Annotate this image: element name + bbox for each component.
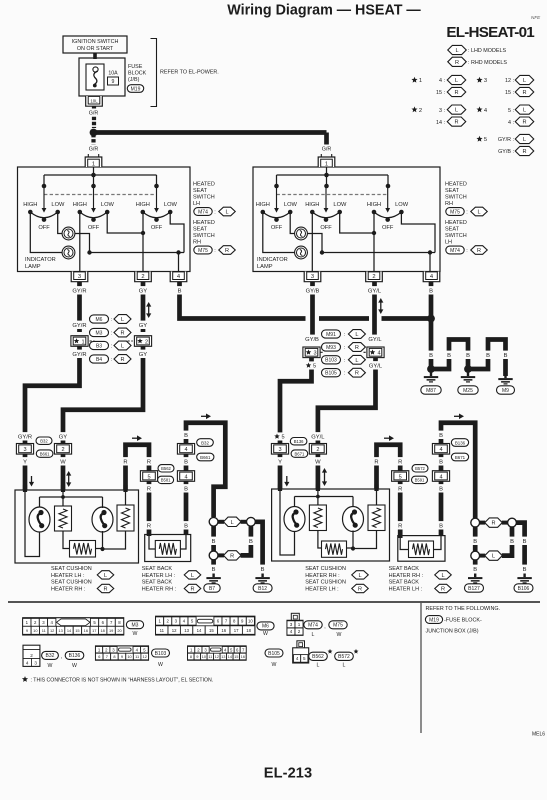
svg-text:SEAT CUSHION: SEAT CUSHION xyxy=(305,580,346,586)
svg-text:ON OR START: ON OR START xyxy=(77,46,114,52)
legend *1 xyxy=(411,77,417,83)
svg-text:REFER TO THE FOLLOWING.: REFER TO THE FOLLOWING. xyxy=(426,606,501,612)
contact node sw3 (right) xyxy=(386,184,391,189)
ground ref M25 xyxy=(458,386,478,394)
svg-text:1: 1 xyxy=(82,339,85,345)
svg-text::: : xyxy=(111,344,112,350)
wire thermostat to node (right) xyxy=(347,547,354,549)
left switch pin 4 xyxy=(170,272,187,282)
indicator lamp 2 (left) xyxy=(62,246,75,259)
seat cushion heater RH box xyxy=(272,489,390,561)
connector refs B32/B661 (cushion pair) xyxy=(36,437,52,444)
svg-text:W: W xyxy=(315,460,321,466)
svg-text:L: L xyxy=(121,344,124,350)
connector B32/B661 pin 3 xyxy=(16,444,33,455)
svg-text:B671: B671 xyxy=(295,451,305,456)
svg-text:1: 1 xyxy=(92,162,95,168)
svg-text:SWITCH: SWITCH xyxy=(445,233,467,239)
svg-text:SEAT CUSHION: SEAT CUSHION xyxy=(51,580,92,586)
B bridge 1 xyxy=(431,340,468,370)
heater element 1 (left cushion) xyxy=(55,506,72,531)
svg-text::: : xyxy=(214,248,216,254)
svg-text:B: B xyxy=(439,460,443,466)
svg-text:R: R xyxy=(454,120,458,126)
svg-text:B105: B105 xyxy=(268,651,280,657)
svg-text:1: 1 xyxy=(298,622,301,627)
fuse number 9 box xyxy=(108,77,119,85)
svg-text:13: 13 xyxy=(58,628,62,633)
svg-text:HEATER LH :: HEATER LH : xyxy=(305,586,339,592)
seat back heater element (left) xyxy=(155,541,180,558)
svg-text:B: B xyxy=(429,353,433,359)
svg-text:10: 10 xyxy=(248,619,253,624)
svg-text:SEAT BACK: SEAT BACK xyxy=(389,580,420,586)
svg-text:W: W xyxy=(158,662,163,668)
double arrow (GY/L) xyxy=(378,298,383,314)
right switch internal feed lines xyxy=(326,167,328,175)
svg-text:M74: M74 xyxy=(450,248,460,254)
wire common to pin 4 xyxy=(178,253,180,272)
junction at M87 xyxy=(427,365,435,373)
svg-text:2: 2 xyxy=(372,274,375,280)
terminal circle C xyxy=(209,551,218,560)
svg-text:BLOCK: BLOCK xyxy=(128,71,147,77)
svg-text:B: B xyxy=(439,524,443,530)
svg-text:OFF: OFF xyxy=(320,225,332,231)
heated seat switch LH box (M74) xyxy=(18,167,191,272)
svg-text:B: B xyxy=(184,433,188,439)
wire circle D to circle F xyxy=(473,527,478,552)
svg-text::: : xyxy=(214,210,216,216)
junction pin 2 node (right) xyxy=(372,231,376,235)
svg-text:LH: LH xyxy=(193,201,200,207)
connector face B32/B136 xyxy=(23,645,40,666)
svg-text:GY: GY xyxy=(59,435,68,441)
wire B to ground B12 xyxy=(255,522,262,573)
svg-text:R: R xyxy=(398,487,402,493)
svg-text:16: 16 xyxy=(84,628,88,633)
svg-text:B: B xyxy=(504,353,508,359)
svg-text:B4: B4 xyxy=(96,357,102,363)
svg-text:M9: M9 xyxy=(502,388,509,394)
svg-text:HIGH: HIGH xyxy=(23,202,37,208)
svg-text:W: W xyxy=(263,631,268,637)
wire GY/R pin3 to *1 xyxy=(77,282,82,332)
cushion lamp A (right) xyxy=(284,507,305,532)
svg-text:R: R xyxy=(355,345,359,351)
wire stub Y into box xyxy=(23,485,27,492)
svg-text:R: R xyxy=(398,524,402,530)
wire HIGH1 to lamp2 (right) xyxy=(263,212,295,253)
wire stub W into box xyxy=(61,485,65,492)
switch unit 1 (right box) xyxy=(256,186,298,231)
arrow flow (right B) xyxy=(454,414,464,420)
svg-text:R: R xyxy=(147,487,151,493)
svg-text:2: 2 xyxy=(30,653,33,658)
fuse block pin 10L xyxy=(86,96,103,106)
connector refs B136/B671 (right column) xyxy=(451,439,468,447)
svg-text:Y: Y xyxy=(23,460,27,466)
svg-text:B136: B136 xyxy=(69,653,81,659)
wire B to ground M87 xyxy=(429,319,434,370)
svg-text:M75: M75 xyxy=(450,209,460,215)
svg-text:B: B xyxy=(473,567,477,573)
svg-text:R: R xyxy=(190,587,194,593)
connector B32/B661 pin 4 xyxy=(177,444,194,455)
svg-text:HEATER LH :: HEATER LH : xyxy=(51,573,85,579)
wire B left pin4 to ground bus xyxy=(180,282,306,319)
svg-text:R: R xyxy=(441,587,445,593)
svg-text:SEAT BACK: SEAT BACK xyxy=(142,566,173,572)
internal: top rail xyxy=(40,496,103,498)
connector face B562/B572 xyxy=(293,641,309,663)
ground ref B127 xyxy=(465,584,484,592)
terminal circle F xyxy=(471,551,480,560)
mechanical link (dashed) xyxy=(44,194,157,196)
svg-text:B: B xyxy=(523,539,527,545)
ground ref B106 xyxy=(514,584,533,592)
svg-text:W: W xyxy=(72,663,77,669)
connector face M3 xyxy=(23,618,124,635)
mechanical link (dashed, right) xyxy=(277,194,389,196)
svg-text:L: L xyxy=(355,332,358,338)
switch unit 1 (left box) xyxy=(23,186,65,231)
svg-text:LOW: LOW xyxy=(395,202,409,208)
svg-text:M3: M3 xyxy=(132,623,139,629)
svg-text:B: B xyxy=(473,539,477,545)
connector B136/B671 pin 2 xyxy=(309,444,326,455)
svg-text:5: 5 xyxy=(399,474,402,480)
svg-text:L: L xyxy=(104,573,107,579)
double arrow (W feed right) xyxy=(322,468,327,486)
connector refs B572/B591 xyxy=(412,465,428,472)
arrow down (Y feed right) xyxy=(284,476,289,487)
svg-text:M74: M74 xyxy=(308,623,318,629)
svg-text:SEAT CUSHION: SEAT CUSHION xyxy=(305,566,346,572)
wire B seat back return (left) xyxy=(186,423,225,535)
svg-text:18: 18 xyxy=(101,628,105,633)
svg-text:1: 1 xyxy=(419,78,422,84)
arrow flow (right R) xyxy=(384,435,394,441)
wire R inside seat back xyxy=(149,535,155,550)
wire B right pin4 to bus junction xyxy=(429,282,434,319)
svg-text:LOW: LOW xyxy=(101,202,115,208)
wire stub Y into box (right) xyxy=(278,485,282,492)
indicator lamp 1 (right) xyxy=(295,227,308,240)
svg-text:M74: M74 xyxy=(198,209,208,215)
right switch pin 2 xyxy=(366,272,383,282)
contact node sw1 xyxy=(42,184,47,189)
svg-text:12: 12 xyxy=(143,654,147,659)
lamp common wire (right) xyxy=(322,252,435,254)
terminal circle E xyxy=(508,518,517,527)
svg-text:M19: M19 xyxy=(429,617,439,623)
wire stub R into box xyxy=(123,485,127,492)
svg-text:B32: B32 xyxy=(46,653,55,659)
svg-text:R: R xyxy=(147,460,151,466)
svg-text:11: 11 xyxy=(208,655,212,659)
wire label G/R xyxy=(87,145,99,153)
svg-text:R: R xyxy=(355,371,359,377)
wire lampB top xyxy=(102,497,104,508)
connector ref column M91/M93/B103/B105 xyxy=(322,330,341,338)
svg-text:SWITCH: SWITCH xyxy=(445,195,467,201)
svg-text:SEAT BACK: SEAT BACK xyxy=(142,580,173,586)
heater element 2 (left cushion) xyxy=(117,505,134,531)
seat back heater element (right) xyxy=(409,541,434,558)
svg-text:L: L xyxy=(477,210,480,216)
svg-text:9: 9 xyxy=(196,655,198,659)
svg-text:B: B xyxy=(466,353,470,359)
junction lampB/thermostat/element2 (right) xyxy=(351,546,355,550)
svg-text:B: B xyxy=(486,353,490,359)
svg-text:R: R xyxy=(103,587,107,593)
svg-text:R: R xyxy=(398,460,402,466)
ground bus segment 3 xyxy=(382,316,432,321)
svg-text:L: L xyxy=(231,520,234,526)
junction W x top rail (right) xyxy=(316,495,320,499)
fuse 10A (fuse symbol) xyxy=(86,64,104,90)
svg-text:B3: B3 xyxy=(96,343,102,349)
svg-text:4: 4 xyxy=(290,629,293,634)
svg-text:W: W xyxy=(48,663,53,669)
connector ref column M6/M3/B3/B4 xyxy=(90,315,109,323)
svg-text:B32: B32 xyxy=(40,439,48,444)
legend: L = LHD models xyxy=(448,45,467,54)
svg-text:B562: B562 xyxy=(312,654,324,660)
svg-text:B: B xyxy=(523,567,527,573)
wire HIGH2 to pin 3 xyxy=(79,212,81,271)
svg-text:R: R xyxy=(454,90,458,96)
svg-text:3: 3 xyxy=(290,622,293,627)
junction pin 2 node xyxy=(141,231,145,235)
svg-text:5: 5 xyxy=(303,656,306,661)
internal: R to heater element 2 (right) xyxy=(376,491,378,505)
wire lampB bottom xyxy=(102,531,104,549)
svg-text:M87: M87 xyxy=(426,388,436,394)
wire C to ground B7 xyxy=(211,560,216,573)
internal: R to heater element 2 xyxy=(125,492,127,505)
svg-text:19: 19 xyxy=(109,628,113,633)
wire LOW2 to pin2 node (right) xyxy=(340,212,374,233)
svg-text::: : xyxy=(466,210,468,216)
svg-text:L: L xyxy=(455,78,458,84)
left switch pin 1 xyxy=(85,154,102,168)
wire HIGH1 to lamp2 xyxy=(30,212,62,253)
svg-text:10L: 10L xyxy=(90,98,98,103)
svg-text:GY/B :: GY/B : xyxy=(498,149,514,155)
svg-text:B: B xyxy=(184,460,188,466)
svg-text:HIGH: HIGH xyxy=(367,202,381,208)
svg-text:R: R xyxy=(522,120,526,126)
svg-text:R: R xyxy=(120,331,124,337)
svg-text:4: 4 xyxy=(439,474,442,480)
junction lampB/thermostat/element2 xyxy=(100,547,104,551)
svg-text:16: 16 xyxy=(221,628,226,633)
svg-text:L: L xyxy=(317,663,320,669)
svg-text:B: B xyxy=(447,353,451,359)
svg-text:NFE: NFE xyxy=(531,15,541,20)
switch unit 3 (right box) xyxy=(367,186,409,231)
right switch pin 3 xyxy=(304,272,321,282)
wire B inside seat back xyxy=(180,535,186,550)
svg-text:GY: GY xyxy=(139,323,148,329)
footnote harness layout xyxy=(22,676,28,682)
wire G/R from fuse block (dashed) xyxy=(92,107,96,129)
svg-text:EL-213: EL-213 xyxy=(264,766,312,782)
heater element 2 (right cushion) xyxy=(368,505,385,531)
svg-text:M93: M93 xyxy=(326,345,336,351)
svg-text:: RHD MODELS: : RHD MODELS xyxy=(468,60,507,66)
svg-text:GY/R: GY/R xyxy=(18,435,32,441)
svg-text:M75: M75 xyxy=(333,623,343,629)
right switch pin 4 xyxy=(423,272,440,282)
svg-text:INDICATOR: INDICATOR xyxy=(257,257,288,263)
svg-text:16: 16 xyxy=(241,655,245,659)
junction to pin 4 (right) xyxy=(428,250,432,254)
svg-text::: : xyxy=(111,317,112,323)
wire HIGH3 to pin 2 (right) xyxy=(373,212,375,271)
contact node sw1 (right) xyxy=(274,184,279,189)
wire E to ground B106 xyxy=(516,523,524,573)
wire LOW2 to pin2 node xyxy=(107,212,143,233)
svg-text:R: R xyxy=(225,248,229,254)
svg-text:11: 11 xyxy=(135,654,139,659)
svg-text:M6: M6 xyxy=(262,624,269,630)
svg-text:2: 2 xyxy=(61,447,64,453)
legend *3 xyxy=(476,77,482,83)
wire LOW3 to common (right) xyxy=(401,212,435,253)
connector refs B562/B581 xyxy=(158,465,174,472)
svg-text:L: L xyxy=(441,573,444,579)
seat back heater LH box xyxy=(145,535,191,562)
svg-text:SEAT: SEAT xyxy=(193,227,208,233)
junction at M25 xyxy=(464,365,472,373)
svg-text:B105: B105 xyxy=(325,371,337,377)
svg-text::: : xyxy=(344,358,345,364)
svg-text:B: B xyxy=(178,289,182,295)
arrow flow (left R) xyxy=(132,435,142,441)
switch unit 2 (right box) xyxy=(305,186,347,231)
lamp common wire xyxy=(90,252,185,254)
wire element1 to thermostat (right) xyxy=(318,531,322,549)
svg-text:5: 5 xyxy=(281,435,284,441)
svg-text:W: W xyxy=(133,631,138,637)
svg-text:L: L xyxy=(492,554,495,560)
wire LOW1 to lamp1 xyxy=(58,212,62,234)
svg-text:9: 9 xyxy=(121,654,123,659)
svg-text:L: L xyxy=(523,108,526,114)
B bridge 2 xyxy=(468,340,506,377)
svg-text:B572: B572 xyxy=(415,466,425,471)
svg-text:W: W xyxy=(337,632,342,638)
wire thermostat to node xyxy=(96,548,103,550)
svg-text:13: 13 xyxy=(221,655,225,659)
svg-text:R: R xyxy=(491,521,495,527)
svg-text:1: 1 xyxy=(325,162,328,168)
ground B7 symbol xyxy=(206,574,220,584)
wire GY/B pin3 to *3 xyxy=(310,282,315,343)
svg-text:HEATED: HEATED xyxy=(445,220,467,226)
G/R bus wire to right switch xyxy=(94,130,327,135)
svg-text:SEAT: SEAT xyxy=(445,227,460,233)
ground bus segment 2 xyxy=(319,316,369,321)
svg-text:G/R: G/R xyxy=(322,147,332,153)
svg-text:B103: B103 xyxy=(325,358,337,364)
svg-text:5: 5 xyxy=(313,364,316,370)
svg-text:SWITCH: SWITCH xyxy=(193,233,215,239)
svg-text:RH: RH xyxy=(445,201,453,207)
wire common to pin 4 (right) xyxy=(429,253,431,272)
connector face B105 xyxy=(188,646,247,660)
svg-text:GY/B: GY/B xyxy=(305,337,319,343)
svg-text:: THIS CONNECTOR IS NOT SHOWN: : THIS CONNECTOR IS NOT SHOWN IN “HARNES… xyxy=(31,678,214,684)
wire GY/L pin2 to *4 xyxy=(372,282,377,343)
seat back heater RH box xyxy=(398,536,445,562)
connector B562/B581 pin 4 xyxy=(177,471,194,482)
svg-text:L: L xyxy=(455,108,458,114)
svg-text:HIGH: HIGH xyxy=(305,202,319,208)
svg-text:M75: M75 xyxy=(198,248,208,254)
svg-text:SEAT: SEAT xyxy=(445,188,460,194)
internal: W to heater element 1 (right) xyxy=(317,491,319,505)
wire W to seat cushion LH xyxy=(61,455,66,491)
svg-text:HEATER LH :: HEATER LH : xyxy=(142,573,176,579)
svg-text:GY: GY xyxy=(139,352,148,358)
svg-text:14: 14 xyxy=(197,628,202,633)
svg-text:INDICATOR: INDICATOR xyxy=(25,257,56,263)
svg-text:L: L xyxy=(312,632,315,638)
legend *4 xyxy=(476,106,482,112)
svg-text:R: R xyxy=(230,553,234,559)
ground ref M9 xyxy=(497,386,515,394)
svg-text:Wiring Diagram — HSEAT —: Wiring Diagram — HSEAT — xyxy=(227,3,421,19)
svg-text:LOW: LOW xyxy=(164,202,178,208)
svg-text:B: B xyxy=(510,539,514,545)
wire element2 to node xyxy=(103,531,126,549)
svg-text:B: B xyxy=(439,487,443,493)
ground M87 symbol xyxy=(424,373,438,383)
connector B136/B671 pin 3 xyxy=(271,444,288,455)
terminal circle B xyxy=(247,517,256,526)
svg-text::: : xyxy=(344,332,345,338)
svg-text:11: 11 xyxy=(160,628,165,633)
svg-text:B591: B591 xyxy=(415,478,425,483)
cushion lamp B (right) xyxy=(343,507,364,532)
double arrow (GY) xyxy=(146,302,151,318)
svg-text:L: L xyxy=(355,358,358,364)
wire Y to seat cushion RH xyxy=(278,455,283,490)
svg-text:OFF: OFF xyxy=(38,225,50,231)
svg-text:3: 3 xyxy=(311,274,314,280)
svg-text:LOW: LOW xyxy=(333,202,347,208)
svg-text:B32: B32 xyxy=(201,440,209,445)
legend *2 xyxy=(411,106,417,112)
svg-text:L: L xyxy=(225,210,228,216)
wire Y to seat cushion LH xyxy=(23,455,28,491)
left switch pin 3 xyxy=(71,272,88,282)
wire stub R into box (right) xyxy=(374,485,378,492)
wire G/R drop to right switch pin 1 xyxy=(324,133,329,145)
svg-text:L: L xyxy=(523,78,526,84)
ground B12 symbol xyxy=(255,574,269,584)
dashes between *3 and ovals xyxy=(321,351,325,353)
svg-text:R: R xyxy=(522,149,526,155)
lamp common junction (right) xyxy=(320,250,324,254)
wire LOW1 to lamp1 (right) xyxy=(290,212,294,234)
in-line connector *4 xyxy=(367,347,384,358)
svg-text:10: 10 xyxy=(202,655,206,659)
